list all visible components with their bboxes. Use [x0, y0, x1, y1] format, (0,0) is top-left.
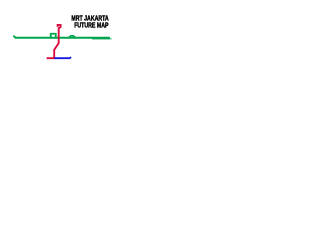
green east-west line: lower overlap band on final segment: [92, 38, 111, 39]
green east-west line: trapezoid bump: [68, 36, 76, 38]
green east-west line: left end tick: [14, 36, 16, 38]
green east-west line: right end light step: [110, 38, 112, 39]
green east-west line: main horizontal: [15, 37, 110, 39]
svg-text:FUTURE MAP: FUTURE MAP: [74, 20, 108, 29]
green east-west line: rectangular notch: [51, 34, 56, 39]
blue extension line: horizontal with right end up-tick: [54, 57, 71, 58]
red north-south line: top flag hook and vertical with jog: [47, 25, 61, 58]
